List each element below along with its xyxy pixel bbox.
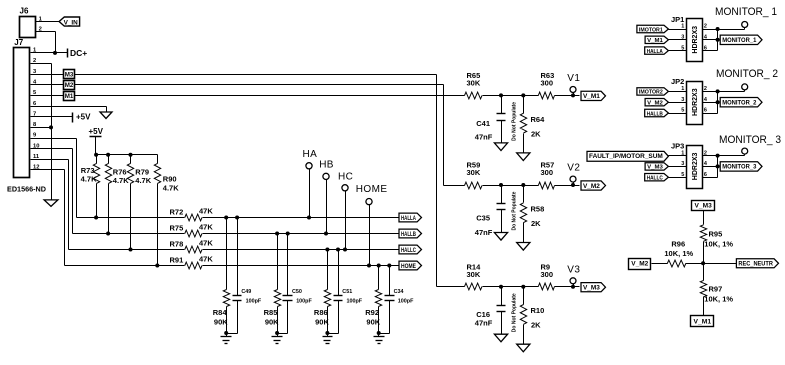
svg-text:IMOTOR2: IMOTOR2 xyxy=(639,90,663,96)
svg-text:47nF: 47nF xyxy=(475,319,493,328)
svg-text:DC+: DC+ xyxy=(70,48,87,58)
svg-text:V_M3: V_M3 xyxy=(583,286,601,292)
svg-text:R58: R58 xyxy=(531,205,545,214)
svg-text:R72: R72 xyxy=(170,208,184,217)
svg-text:HALLC: HALLC xyxy=(401,248,416,254)
svg-text:30K: 30K xyxy=(467,168,481,177)
svg-text:M1: M1 xyxy=(65,93,74,100)
svg-text:M3: M3 xyxy=(65,72,74,79)
svg-text:300: 300 xyxy=(541,270,554,279)
svg-text:MONITOR_3: MONITOR_3 xyxy=(722,165,757,171)
svg-text:3: 3 xyxy=(681,97,684,103)
svg-text:5: 5 xyxy=(681,45,684,51)
svg-text:J6: J6 xyxy=(20,7,29,16)
svg-text:C51: C51 xyxy=(342,289,352,295)
svg-text:HOME: HOME xyxy=(356,184,388,195)
svg-text:100pF: 100pF xyxy=(296,299,312,305)
svg-text:4.7K: 4.7K xyxy=(135,176,151,185)
svg-text:C49: C49 xyxy=(241,289,251,295)
svg-text:100pF: 100pF xyxy=(246,299,262,305)
svg-text:JP2: JP2 xyxy=(671,77,684,86)
svg-text:R78: R78 xyxy=(170,240,184,249)
svg-text:R90: R90 xyxy=(163,175,177,184)
svg-text:MONITOR_ 3: MONITOR_ 3 xyxy=(719,134,781,146)
svg-text:R91: R91 xyxy=(170,256,184,265)
svg-text:MONITOR_ 1: MONITOR_ 1 xyxy=(715,6,777,18)
svg-text:V1: V1 xyxy=(567,73,580,84)
svg-text:V_IN: V_IN xyxy=(64,20,78,27)
svg-text:2: 2 xyxy=(704,24,707,30)
svg-text:90K: 90K xyxy=(265,317,279,326)
svg-text:V_M1: V_M1 xyxy=(694,318,712,325)
svg-text:HDR2X3: HDR2X3 xyxy=(692,26,699,54)
svg-text:HALLB: HALLB xyxy=(401,232,416,238)
svg-text:C50: C50 xyxy=(292,289,302,295)
svg-text:6: 6 xyxy=(704,108,707,114)
svg-text:100pF: 100pF xyxy=(347,299,363,305)
svg-text:IMOTOR1: IMOTOR1 xyxy=(639,27,664,33)
svg-text:ED1566-ND: ED1566-ND xyxy=(7,184,47,193)
svg-text:HOME: HOME xyxy=(401,264,416,270)
svg-text:10K, 1%: 10K, 1% xyxy=(704,240,733,249)
svg-text:R97: R97 xyxy=(709,285,723,294)
svg-text:FAULT_IP/MOTOR_SUM: FAULT_IP/MOTOR_SUM xyxy=(589,153,663,160)
svg-text:3: 3 xyxy=(681,35,684,41)
svg-text:HALLC: HALLC xyxy=(647,176,664,182)
svg-text:J7: J7 xyxy=(14,38,23,47)
svg-text:V_M3: V_M3 xyxy=(695,203,713,210)
svg-text:V_M2: V_M2 xyxy=(647,101,663,107)
svg-text:3: 3 xyxy=(681,161,684,167)
svg-text:300: 300 xyxy=(541,168,554,177)
svg-text:47nF: 47nF xyxy=(475,228,493,237)
svg-text:+5V: +5V xyxy=(76,113,91,122)
svg-text:47K: 47K xyxy=(199,239,213,248)
svg-text:Do Not Populate: Do Not Populate xyxy=(511,191,517,230)
svg-text:4.7K: 4.7K xyxy=(163,184,179,193)
svg-text:300: 300 xyxy=(541,79,554,88)
svg-text:MONITOR_1: MONITOR_1 xyxy=(722,38,757,44)
svg-text:R92: R92 xyxy=(365,308,379,317)
svg-text:MONITOR_ 2: MONITOR_ 2 xyxy=(716,68,778,80)
svg-text:JP3: JP3 xyxy=(671,141,684,150)
svg-text:R96: R96 xyxy=(671,240,685,249)
svg-text:47K: 47K xyxy=(199,255,213,264)
svg-text:HA: HA xyxy=(303,149,318,160)
svg-text:V2: V2 xyxy=(567,163,580,174)
svg-text:Do Not Populate: Do Not Populate xyxy=(511,102,517,141)
svg-text:100pF: 100pF xyxy=(398,299,414,305)
svg-text:2K: 2K xyxy=(531,129,541,138)
svg-text:2K: 2K xyxy=(531,219,541,228)
svg-text:HALLA: HALLA xyxy=(401,216,416,222)
svg-text:V_M1: V_M1 xyxy=(647,38,663,44)
svg-text:47K: 47K xyxy=(199,223,213,232)
svg-text:C34: C34 xyxy=(394,289,404,295)
svg-text:4.7K: 4.7K xyxy=(113,176,129,185)
svg-text:C35: C35 xyxy=(476,213,490,222)
svg-text:HDR2X3: HDR2X3 xyxy=(692,88,699,116)
svg-text:30K: 30K xyxy=(467,270,481,279)
svg-text:90K: 90K xyxy=(315,317,329,326)
svg-text:V_M3: V_M3 xyxy=(647,165,663,171)
svg-text:R85: R85 xyxy=(264,308,278,317)
svg-text:HALLA: HALLA xyxy=(647,49,664,55)
svg-text:5: 5 xyxy=(681,108,684,114)
svg-text:2K: 2K xyxy=(531,321,541,330)
svg-text:10K, 1%: 10K, 1% xyxy=(664,249,693,258)
svg-text:+5V: +5V xyxy=(89,127,104,136)
svg-text:HC: HC xyxy=(338,172,353,183)
svg-text:4.7K: 4.7K xyxy=(81,175,97,184)
svg-text:R86: R86 xyxy=(314,308,328,317)
svg-text:M2: M2 xyxy=(65,82,74,89)
svg-text:R64: R64 xyxy=(531,115,546,124)
svg-text:JP1: JP1 xyxy=(671,15,684,24)
svg-text:V_M2: V_M2 xyxy=(583,184,601,190)
svg-text:90K: 90K xyxy=(366,317,380,326)
svg-text:REC_NEUTR: REC_NEUTR xyxy=(738,262,773,268)
svg-text:47nF: 47nF xyxy=(475,132,493,141)
svg-text:R95: R95 xyxy=(709,230,723,239)
svg-text:R75: R75 xyxy=(170,224,184,233)
svg-text:V3: V3 xyxy=(567,264,580,275)
svg-text:R84: R84 xyxy=(213,308,228,317)
svg-text:47K: 47K xyxy=(199,207,213,216)
svg-text:5: 5 xyxy=(681,172,684,178)
svg-text:Do Not Populate: Do Not Populate xyxy=(511,293,517,332)
svg-text:HALLB: HALLB xyxy=(647,111,663,117)
svg-text:V_M1: V_M1 xyxy=(583,94,601,100)
svg-text:MONITOR_2: MONITOR_2 xyxy=(722,101,757,107)
svg-text:C41: C41 xyxy=(476,119,490,128)
svg-text:30K: 30K xyxy=(467,79,481,88)
svg-text:HB: HB xyxy=(319,160,334,171)
svg-text:2: 2 xyxy=(39,27,42,33)
svg-text:V_M2: V_M2 xyxy=(631,261,649,268)
svg-text:R10: R10 xyxy=(531,306,545,315)
svg-text:1: 1 xyxy=(681,86,684,92)
svg-text:10K, 1%: 10K, 1% xyxy=(704,295,733,304)
svg-text:HDR2X3: HDR2X3 xyxy=(692,152,699,180)
svg-text:90K: 90K xyxy=(214,317,228,326)
svg-text:1: 1 xyxy=(681,24,684,30)
svg-text:1: 1 xyxy=(681,150,684,156)
